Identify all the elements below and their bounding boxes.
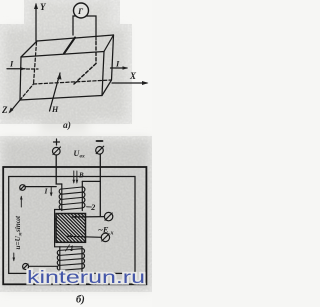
left rail bbox=[59, 247, 61, 272]
right bumps bbox=[82, 187, 85, 208]
hidden wire down back face bbox=[95, 42, 97, 64]
svg-text:Н: Н bbox=[51, 105, 59, 114]
right rail bbox=[81, 181, 83, 210]
wire from minus terminal bbox=[99, 154, 101, 216]
current I arrow left bbox=[7, 67, 26, 71]
box bottom-right depth edge bbox=[102, 80, 112, 96]
B field arrows bbox=[73, 171, 79, 184]
right bumps bbox=[82, 249, 85, 269]
rungs bbox=[60, 249, 82, 271]
output terminal upper bbox=[104, 212, 112, 220]
outer case rectangle bbox=[3, 167, 146, 284]
hidden bottom-back edge bbox=[34, 80, 112, 84]
AC terminal bottom-left bbox=[23, 264, 29, 270]
svg-text:1: 1 bbox=[70, 244, 74, 253]
output wire lower bbox=[67, 235, 102, 238]
left bumps bbox=[59, 189, 62, 210]
svg-text:I: I bbox=[115, 59, 120, 69]
rungs bbox=[62, 187, 83, 210]
wire from bottom AC terminal bbox=[29, 265, 58, 267]
X axis bbox=[112, 81, 149, 85]
Z axis bbox=[9, 100, 21, 114]
svg-text:X: X bbox=[129, 71, 137, 81]
box top-right depth edge bbox=[104, 35, 114, 52]
paper background bbox=[0, 0, 152, 307]
magnetizing coil 2 (top) bbox=[59, 181, 85, 210]
svg-text:б): б) bbox=[76, 295, 85, 306]
hidden bottom electrode strip bbox=[74, 64, 96, 85]
right rail bbox=[81, 247, 83, 272]
wire from plus terminal bbox=[56, 155, 62, 184]
scan-grain washes around figures bbox=[2, 2, 150, 289]
output wire upper bbox=[72, 216, 105, 219]
output terminal lower bbox=[101, 233, 109, 241]
plus terminal bbox=[53, 139, 61, 155]
svg-text:Z: Z bbox=[1, 105, 8, 115]
box back-right vertical edge bbox=[112, 35, 114, 80]
top electrode strip bbox=[64, 38, 75, 54]
box top-left depth edge bbox=[21, 41, 37, 57]
svg-text:вх: вх bbox=[80, 154, 85, 160]
label I with down arrow bbox=[44, 187, 53, 197]
AC input terminal top-left bbox=[20, 185, 26, 191]
svg-text:sinωt: sinωt bbox=[14, 215, 22, 233]
svg-text:В: В bbox=[78, 172, 84, 180]
galvanometer G bbox=[73, 3, 96, 40]
label 2 with leader bbox=[87, 203, 96, 212]
svg-text:х: х bbox=[110, 231, 114, 237]
stub into Hall plate left edge bbox=[55, 218, 57, 220]
current I arrow right bbox=[111, 66, 129, 70]
wire from AC terminal bbox=[25, 186, 56, 188]
svg-text:kinterun.ru: kinterun.ru bbox=[27, 267, 145, 287]
magnetizing coil 1 (bottom) bbox=[57, 247, 84, 272]
svg-text:2: 2 bbox=[90, 203, 95, 212]
label Uvx bbox=[74, 149, 85, 160]
Hall element (hatched) bbox=[24, 211, 125, 251]
svg-text:Г: Г bbox=[77, 6, 84, 16]
hidden back-left vertical edge bbox=[34, 42, 37, 84]
box front-top edge bbox=[21, 52, 104, 58]
source label arrows bbox=[13, 196, 23, 262]
svg-text:u=U: u=U bbox=[14, 235, 22, 249]
top rung bbox=[60, 246, 82, 248]
wire coil2 to minus wire bbox=[82, 180, 100, 182]
connecting wire bracket (coil2 to coil1) bbox=[55, 210, 62, 247]
svg-text:I: I bbox=[9, 59, 14, 69]
label 1 with leader bbox=[66, 244, 74, 253]
left rail bbox=[61, 184, 63, 211]
svg-text:~E: ~E bbox=[98, 225, 109, 235]
minus terminal bbox=[96, 141, 104, 154]
box back-top edge bbox=[37, 35, 114, 41]
hidden bottom-left depth edge bbox=[20, 84, 34, 100]
box bottom-front edge bbox=[20, 96, 102, 101]
label ~Ex bbox=[98, 225, 114, 237]
inner shield rectangle bbox=[9, 177, 135, 274]
watermark bbox=[27, 267, 145, 287]
left bumps bbox=[57, 250, 60, 270]
hidden current path entering bbox=[27, 68, 39, 70]
H field arrow bbox=[50, 73, 62, 111]
svg-text:а): а) bbox=[63, 120, 71, 131]
Y axis bbox=[34, 3, 38, 41]
box front-right vertical edge bbox=[102, 52, 104, 96]
box front-left vertical edge bbox=[20, 57, 21, 100]
